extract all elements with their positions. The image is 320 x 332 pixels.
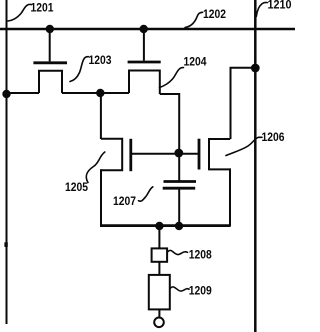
node gate of 1204 on rail bbox=[140, 25, 148, 33]
wire node B to capacitor 1207 top plate bbox=[178, 153, 180, 182]
wire top horizontal rail 1202 bbox=[0, 28, 295, 31]
transistor 1203 bbox=[33, 31, 67, 93]
leader 1201 bbox=[8, 4, 31, 21]
wire left vertical bus 1201 bbox=[6, 0, 8, 324]
wire bottom rail bbox=[100, 224, 230, 227]
node gate of 1203 on rail bbox=[46, 25, 54, 33]
wire node A to 1204 source bbox=[100, 92, 129, 94]
svg-text:1204: 1204 bbox=[184, 57, 208, 69]
svg-text:1209: 1209 bbox=[189, 286, 212, 298]
svg-text:1201: 1201 bbox=[31, 3, 55, 15]
wire 1206 source to bottom rail bbox=[229, 168, 231, 226]
node D tap to 1208 bbox=[155, 222, 163, 230]
node E capacitor tap bbox=[175, 222, 183, 230]
leader 1209 bbox=[171, 287, 190, 291]
node C drain tap on right bus bbox=[251, 64, 260, 73]
svg-text:1202: 1202 bbox=[203, 9, 226, 21]
wire node B to 1206 gate bbox=[179, 153, 198, 155]
leader 1202 bbox=[185, 12, 203, 27]
wire node D to element 1208 bbox=[158, 226, 160, 248]
capacitor 1207 bbox=[163, 182, 196, 189]
transistor 1206 bbox=[199, 139, 230, 170]
wire node C to 1206 drain bbox=[231, 68, 256, 139]
svg-text:1206: 1206 bbox=[262, 132, 285, 144]
component 1208 small box bbox=[152, 248, 168, 261]
svg-text:1207: 1207 bbox=[113, 196, 136, 208]
leader 1204 bbox=[160, 68, 184, 88]
wire right vertical bus 1210 bbox=[254, 0, 257, 332]
transistor 1205 bbox=[101, 139, 179, 172]
leader 1205 bbox=[86, 152, 105, 183]
wire 1203 drain to node A bbox=[62, 92, 100, 94]
scan nub on left bus bbox=[4, 242, 7, 247]
svg-text:1208: 1208 bbox=[189, 250, 213, 262]
node source junction on left bus bbox=[2, 90, 10, 98]
node A drain junction bbox=[96, 89, 104, 97]
wire 1204 drain to node B bbox=[160, 94, 179, 153]
wire 1205 source to bottom rail bbox=[100, 169, 102, 226]
leader 1207 bbox=[139, 187, 153, 201]
wire capacitor bottom plate to bottom rail bbox=[178, 188, 180, 226]
wire node A down to 1205 drain bbox=[100, 93, 102, 139]
svg-text:1205: 1205 bbox=[65, 182, 89, 194]
leader 1210 bbox=[256, 2, 267, 16]
transistor 1204 bbox=[128, 31, 161, 94]
wire 1208 to 1209 bbox=[158, 262, 160, 275]
wire left bus to 1203 source bbox=[7, 92, 40, 94]
leader 1206 bbox=[226, 137, 262, 155]
svg-text:1210: 1210 bbox=[268, 0, 292, 12]
leader 1203 bbox=[70, 57, 89, 82]
svg-text:1203: 1203 bbox=[89, 55, 112, 67]
leader 1208 bbox=[168, 250, 188, 254]
component 1209 box bbox=[149, 275, 170, 310]
wire 1209 to output terminal bbox=[158, 309, 160, 317]
terminal open circle bbox=[154, 318, 164, 328]
node B gates junction bbox=[174, 149, 183, 158]
